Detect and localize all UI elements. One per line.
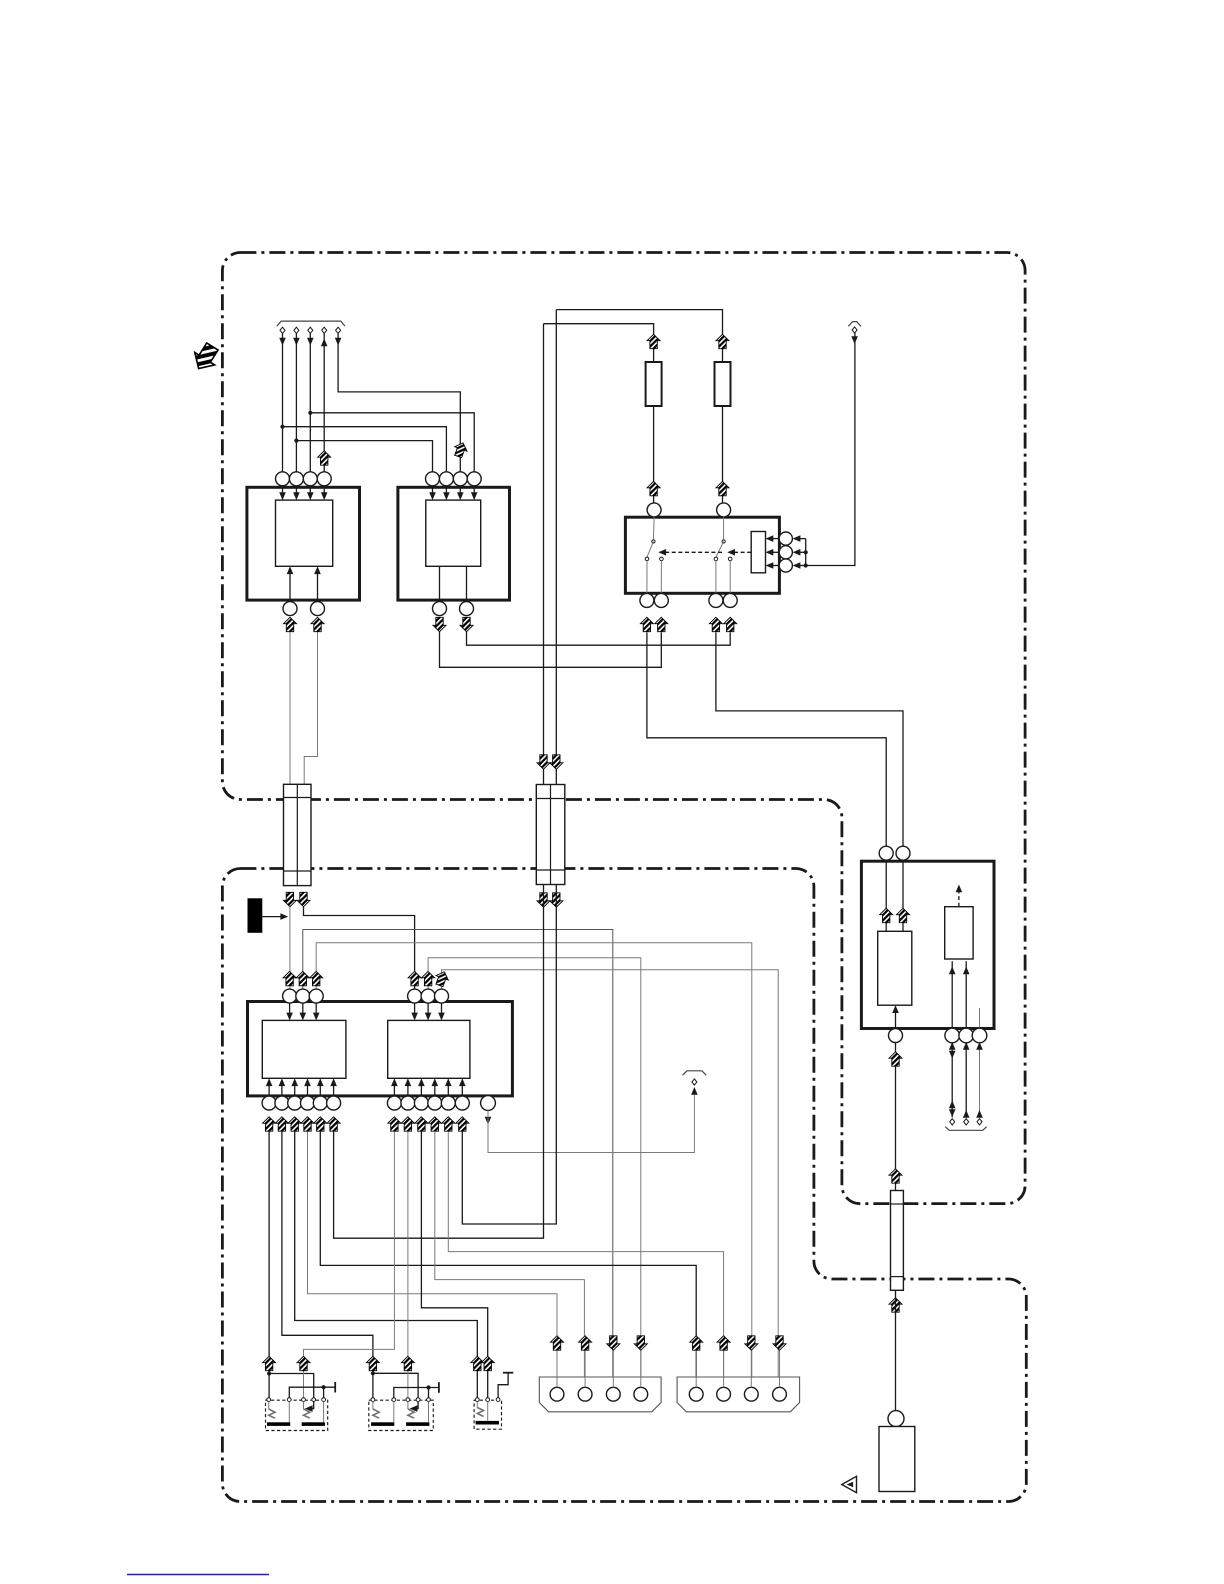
U1 bottom pin 2 (311, 602, 325, 616)
connector bracket CN2 (848, 322, 861, 327)
wire U4 p2 to key K2 c3 (407, 1132, 409, 1398)
signal arrow below U1 pin1 (284, 617, 297, 631)
K1 contact 3 (302, 1398, 306, 1402)
SW1 contact drop 1a (646, 561, 648, 594)
U4 bottom wire 4 (434, 1080, 436, 1096)
SW1 contact 1a (645, 557, 649, 561)
pin1 wire to T2 (951, 1043, 953, 1118)
junction coil bus 2 (804, 550, 808, 554)
relay box top pin 2 (896, 846, 910, 860)
K1 common stub bar (334, 1382, 336, 1393)
U1 top pin 4 (317, 472, 331, 486)
U3 top pin 1 (283, 989, 297, 1003)
K3 key cap bar (476, 1421, 499, 1425)
U4 top pin 1 (408, 989, 422, 1003)
U2 top pin 4 (467, 472, 481, 486)
U4 bottom wire 5 (447, 1080, 449, 1096)
U4 bottom wire 6 (461, 1080, 463, 1096)
jack pin (888, 1411, 904, 1427)
U1 output wire 2 (317, 568, 319, 602)
aux pin (right of U4) (481, 1096, 496, 1111)
wire FC1 col1 to U3 pin1 (289, 907, 291, 989)
SW1 coil drive arrow 1 (768, 538, 780, 540)
signal arrow above FC2 col1 (537, 755, 550, 769)
SW1 lever 1 (647, 542, 653, 558)
signal arrow below SW1 pin3 (709, 617, 722, 631)
SW1 coil feed 1 (795, 538, 806, 540)
U3 bottom pin 2 (275, 1096, 289, 1110)
SW1 coil pin 3 (779, 559, 792, 572)
SW1 contact 2b (728, 557, 732, 561)
junction on CN1-1 wire (280, 425, 284, 429)
U2 top pin 3 (453, 472, 467, 486)
CN3 pin 1 (550, 1387, 564, 1401)
sensor dashed output (958, 889, 960, 907)
CN3 pin 3 (606, 1387, 620, 1401)
signal arrow below SW1 pin2 (655, 617, 668, 631)
U2 input arrow 1 (432, 486, 434, 498)
K3 common stub bar (503, 1372, 513, 1374)
IC U3 inner block (262, 1020, 346, 1078)
CN3 pin 2 wire (584, 1351, 586, 1388)
U3 bottom pin 5 (313, 1096, 327, 1110)
CN4 pin 4 (773, 1387, 787, 1401)
U3 bottom wire 3 (294, 1080, 296, 1096)
K1 common wire (289, 1387, 335, 1398)
key group K1 (dashed) (266, 1400, 328, 1430)
signal arrow at K2 c3 (401, 1356, 414, 1370)
U4 top pin 2 (421, 989, 435, 1003)
sensor input wire 2 (965, 961, 967, 1028)
K1 contact 4 (312, 1398, 316, 1402)
U3 bottom pin 4 (301, 1096, 315, 1110)
flex cable FC3 (891, 1191, 904, 1291)
CN3 pin 4 wire (640, 1351, 642, 1388)
K1 common junction (322, 1385, 326, 1389)
K3 common wire (498, 1373, 508, 1398)
signal arrow below U2 pin1 (433, 617, 446, 631)
U2 output wire 1 (439, 566, 441, 601)
signal arrow below U4 pin2 (401, 1117, 414, 1131)
junction on CN1-2 wire (294, 439, 298, 443)
U4 top input arrow 2 (427, 1003, 429, 1018)
pin2 wire to T2 (965, 1043, 967, 1118)
bus A top run to R1 (544, 324, 654, 362)
pin3 arrows (976, 1042, 983, 1050)
CN4 pin 2 (717, 1387, 731, 1401)
signal arrow above R1 (647, 334, 660, 348)
K2 common stub bar (438, 1382, 440, 1393)
relay bottom pin 2 (959, 1028, 974, 1043)
K3 key lever (476, 1402, 478, 1408)
wire U3 p3 to key K3 (295, 1132, 478, 1398)
signal arrow below U1 pin2 (311, 617, 324, 631)
signal arrow below U3 pin6 (327, 1117, 340, 1131)
wire U4 p5 to CN4 pin2 (448, 1132, 723, 1388)
connector bracket CN6 (945, 1127, 986, 1131)
K2 contact 4 (416, 1398, 420, 1402)
U4 bottom pin 3 (414, 1096, 428, 1110)
wire top pin1 to coil (885, 861, 887, 931)
K1 contact 1 (267, 1398, 271, 1402)
U3 top pin 3 (309, 989, 323, 1003)
CN4 pin 3 wire (750, 1351, 752, 1388)
wire CN1-3 to U1 pin3 (309, 333, 311, 472)
CN3 pin 4 (634, 1387, 648, 1401)
SW1 bottom pin 3 (709, 593, 723, 607)
U4 bottom wire 2 (407, 1080, 409, 1096)
K2 contact drop (428, 1402, 430, 1423)
signal arrow above R2 (716, 334, 729, 348)
wire CN1-5 to U2 pin3 (338, 333, 460, 472)
signal arrow below U3 pin3 (288, 1117, 301, 1131)
SW1 coil feed 2 (795, 551, 806, 553)
K1 contact 5 (322, 1398, 326, 1402)
signal arrow below U3 pin2 (275, 1117, 288, 1131)
K2 key cap bar (371, 1422, 394, 1426)
board outline: main PCB (dash-dot) (222, 253, 1025, 1204)
signal arrow below SW1 pin4 (724, 617, 737, 631)
signal arrow below FC2 col1 (537, 893, 550, 907)
signal arrow above U3 pin3 (310, 971, 323, 985)
U4 bottom pin 1 (387, 1096, 401, 1110)
SW1 lever 2 (716, 542, 724, 558)
flex cable FC1 (left) (284, 784, 312, 885)
K2 key lever (372, 1402, 374, 1410)
resistor R2 (715, 362, 731, 406)
IC U2 inner block (426, 500, 481, 566)
signal arrow coil in 2 (897, 908, 910, 922)
U4 top pin 3 (435, 989, 449, 1003)
K3 contact drop (487, 1402, 489, 1421)
K2 drive branch (373, 1373, 418, 1408)
signal arrow below U4 pin3 (415, 1117, 428, 1131)
wire U3 p6 to bus A (334, 885, 544, 1239)
signal arrow below U4 pin5 (442, 1117, 455, 1131)
signal arrow below FC2 col2 (550, 893, 563, 907)
terminal T2-1 (950, 1119, 955, 1125)
board outline: operation PCB (dash-dot) (222, 869, 1026, 1502)
U1 top pin 2 (289, 472, 303, 486)
terminal CN1-5 (336, 327, 341, 333)
coil block (878, 931, 912, 1005)
signal arrow CN3 pin 4 (634, 1336, 647, 1350)
signal arrow CN4 pin 4 (773, 1336, 786, 1350)
relay bottom pin 1 (945, 1028, 960, 1043)
aux pin arrow (485, 1117, 492, 1125)
CN3 pin 1 wire (556, 1351, 558, 1388)
K3 contact 1 (475, 1398, 479, 1402)
SW1 contact drop 1b (660, 561, 662, 594)
U3 bottom wire 2 (281, 1080, 283, 1096)
wire branch to U2 pin4 (310, 413, 474, 472)
bus B top run to R2 (556, 310, 722, 362)
signal arrow below U2 pin2 (460, 617, 473, 631)
K2 common junction (426, 1385, 430, 1389)
U2 top pin 2 (439, 472, 453, 486)
signal arrow below U3 pin5 (314, 1117, 327, 1131)
wire U1 out1 to cable FC1 col1 (289, 632, 291, 784)
U3 bottom pin 3 (288, 1096, 302, 1110)
K3 contact 2 (486, 1398, 490, 1402)
wire U3 pin3 to CN4 pin3 (316, 943, 752, 1388)
CN4 pin 3 (744, 1387, 758, 1401)
CN3 pin 3 wire (612, 1351, 614, 1388)
U1 input arrow 2 (295, 486, 297, 498)
U3 bottom wire 5 (319, 1080, 321, 1096)
signal arrow below FC1 col2 (297, 892, 310, 906)
U4 bottom pin 5 (441, 1096, 455, 1110)
wire CN2-1 to switch coil bus (806, 333, 855, 566)
signal arrow above U3 pin2 (296, 971, 309, 985)
signal arrow at K2 c1 (366, 1356, 379, 1370)
U3 bottom wire 1 (268, 1080, 270, 1096)
IC U2 outer box (398, 487, 510, 600)
U4 bottom pin 2 (401, 1096, 415, 1110)
U3 bottom pin 6 (327, 1096, 341, 1110)
wire U4 p3 to key K3 c2 (421, 1132, 487, 1398)
wire SW1 pin3 to relay box pin2 (716, 632, 903, 846)
signal arrow below R2 (716, 481, 729, 495)
SW1 top pin 1 (647, 503, 661, 517)
U2 top pin 1 (426, 472, 440, 486)
SW1 coil drive arrow 3 (768, 565, 780, 567)
signal arrow at K3 c2 (481, 1356, 494, 1370)
signal arrow at K1 c3 (297, 1356, 310, 1370)
SW1 contact 1b (660, 557, 664, 561)
K1 contact 2 (287, 1398, 291, 1402)
footer link line (127, 1574, 269, 1576)
connector CN4 shell (677, 1377, 800, 1412)
pin3 wire to T2 (979, 1043, 981, 1118)
aux arrowhead up (691, 1087, 698, 1095)
signal arrow below SW1 pin1 (640, 617, 653, 631)
CN4 pin 1 (689, 1387, 703, 1401)
SW1 pivot 1 (652, 540, 655, 543)
K1 common drop (323, 1387, 325, 1398)
U2 input arrow 3 (459, 486, 461, 498)
signal arrow CN3 pin 2 (579, 1336, 592, 1350)
sensor input wire 1 (951, 961, 953, 1028)
junction K2 drive (371, 1371, 375, 1375)
K1 key lever (303, 1402, 305, 1410)
U1 top pin 1 (276, 472, 290, 486)
signal arrow above U4 pin3 (433, 970, 450, 988)
SW1 coil drive arrow 2 (768, 551, 780, 553)
U2 output wire 2 (466, 566, 468, 601)
wire U4 pin2 to CN3 pin4 (428, 958, 641, 1388)
wire R1 to SW box pin1 (653, 406, 655, 503)
U1 input arrow 3 (309, 486, 311, 498)
terminal T2-2 (964, 1119, 969, 1125)
SW1 pole stub 1 (652, 517, 655, 540)
IC U1 inner block (276, 500, 333, 566)
resistor R1 (646, 362, 662, 406)
U3 bottom pin 1 (262, 1096, 276, 1110)
U1 top pin 3 (303, 472, 317, 486)
K1 drive branch (269, 1374, 314, 1409)
wire U4 pin3 to CN4 pin4 (442, 970, 779, 1388)
SW1 contact drop 2a (715, 561, 717, 594)
U4 bottom wire 3 (420, 1080, 422, 1096)
SW1 bottom pin 1 (640, 593, 654, 607)
relay bottom pin 0 (889, 1029, 903, 1043)
pin1 arrows (949, 1042, 956, 1050)
signal arrow below U3 pin4 (301, 1117, 314, 1131)
signal arrow below FC1 col1 (283, 892, 296, 906)
signal arrow CN3 pin 1 (551, 1336, 564, 1350)
pin2 arrows (963, 1042, 970, 1050)
wire U4 p4 to CN3 pin2 (435, 1132, 585, 1388)
wire R2 to SW box pin2 (722, 406, 724, 503)
U2 bottom pin 1 (433, 602, 447, 616)
wire U4 p6 to bus B (462, 885, 556, 1225)
board pointer arrow (189, 340, 223, 374)
wire U2 pin1 to switch S1 contact b (440, 632, 662, 667)
sensor block (945, 907, 973, 959)
signal arrow above FC3 (889, 1169, 902, 1183)
U3 top input arrow 1 (289, 1003, 291, 1018)
K2 contact drop (393, 1402, 395, 1423)
wire U1 out2 to cable FC1 col2 (304, 632, 317, 784)
U3 top input arrow 3 (315, 1003, 317, 1018)
terminal CN2-1 (852, 327, 857, 333)
SW1 coil feed 3 (795, 565, 806, 567)
U4 bottom pin 4 (428, 1096, 442, 1110)
K2 key cap bar (406, 1422, 429, 1426)
signal arrow above FC2 col2 (550, 755, 563, 769)
signal arrow below U4 pin1 (388, 1117, 401, 1131)
wire FC3 to jack (895, 1290, 897, 1410)
wire U3 pin2 to CN3 pin3 (303, 930, 613, 1388)
relay box outer (861, 861, 994, 1028)
wire CN1-1 to U1 pin1 (282, 333, 284, 472)
signal arrow on relay pin0 wire (889, 1052, 902, 1066)
signal arrow on U1 pin4 wire (318, 451, 331, 465)
K1 contact drop (323, 1402, 325, 1423)
flex cable FC2 (middle) (536, 785, 565, 885)
SW1 actuator link (dashed) (731, 551, 751, 553)
U3 bottom wire 4 (307, 1080, 309, 1096)
relay box top pin 1 (879, 846, 893, 860)
CN4 pin 1 wire (695, 1351, 697, 1388)
U1 bottom pin 1 (283, 602, 297, 616)
wire U4 p1 to key K1 c3 (304, 1132, 395, 1398)
SW1 coil pin 1 (779, 532, 792, 545)
U2 input arrow 4 (473, 486, 475, 498)
K2 common drop (428, 1388, 430, 1398)
SW1 contact 2a (714, 557, 718, 561)
signal arrow below U4 pin4 (428, 1117, 441, 1131)
caution triangle (842, 1476, 857, 1492)
IC U4 inner block (388, 1020, 470, 1078)
SW1 bottom pin 2 (654, 593, 668, 607)
signal arrow below FC3 (889, 1298, 902, 1312)
U2 input arrow 2 (445, 486, 447, 498)
K2 common wire (394, 1388, 439, 1398)
U3 top pin 2 (296, 989, 310, 1003)
signal arrow at K1 c1 (263, 1356, 276, 1370)
connector CN3 shell (539, 1377, 661, 1412)
switch box SW1 (625, 517, 779, 593)
U4 top input arrow 3 (441, 1003, 443, 1018)
IC U1 outer box (247, 487, 360, 600)
wire CN1-4 to U1 pin4 (323, 333, 325, 472)
wire CN1-2 to U1 pin2 (295, 333, 297, 472)
U3 top input arrow 2 (302, 1003, 304, 1018)
sensor input wire 3 (979, 1008, 981, 1029)
CN3 pin 2 (578, 1387, 592, 1401)
SW1 top pin 2 (717, 503, 731, 517)
K1 key cap bar (267, 1422, 290, 1426)
wire branch to U2 pin1 (296, 441, 432, 472)
signal arrow CN4 pin 2 (717, 1336, 730, 1350)
CN4 pin 2 wire (723, 1351, 725, 1388)
jack block (879, 1427, 915, 1492)
signal arrow CN3 pin 3 (607, 1336, 620, 1350)
terminal T1 (692, 1079, 697, 1085)
signal arrow coil in 1 (880, 908, 893, 922)
IC U3/U4 outer box (248, 1002, 513, 1096)
wire U3 p1 to key K1 (268, 1132, 270, 1398)
wire U3 p2 to key K2 (282, 1132, 373, 1398)
wire top pin2 to coil (902, 861, 904, 931)
U4 bottom wire 1 (393, 1080, 395, 1096)
junction on CN1-3 wire (308, 411, 312, 415)
U4 top input arrow 1 (414, 1003, 416, 1018)
K2 contact 2 (392, 1398, 396, 1402)
K1 key lever (268, 1402, 270, 1410)
K2 key lever (407, 1402, 409, 1410)
wire U3 p4 to CN3 pin1 (308, 1132, 558, 1388)
wire FC1 col2 to U4 pin1 (304, 907, 415, 989)
signal arrow below U3 pin1 (263, 1117, 276, 1131)
signal arrow below R1 (647, 481, 660, 495)
SW1 contact drop 2b (729, 561, 731, 594)
CN4 pin 4 wire (779, 1351, 781, 1388)
terminal CN1-4 (322, 327, 327, 333)
K2 contact 5 (427, 1398, 431, 1402)
K2 contact 3 (406, 1398, 410, 1402)
K3 contact 3 (496, 1398, 500, 1402)
U1 input arrow 4 (323, 486, 325, 498)
K2 contact 1 (371, 1398, 375, 1402)
U3 bottom wire 6 (333, 1080, 335, 1096)
wire U2 pin2 to switch S2 contact b (467, 632, 731, 645)
terminal T2-3 (977, 1119, 982, 1125)
wire SW1 pin1 to relay box pin1 (647, 632, 886, 846)
wire branch to U2 pin2 (283, 427, 447, 472)
signal arrow above U4 pin2 (422, 971, 435, 985)
bus wire B (right) (555, 310, 557, 785)
signal arrow at K3 in1 (471, 1356, 484, 1370)
K1 contact drop (288, 1402, 290, 1423)
signal arrow above U3 pin1 (283, 971, 296, 985)
junction K1 drive (267, 1371, 271, 1375)
terminal CN1-3 (308, 327, 313, 333)
SW1 coil bus (805, 539, 807, 566)
junction coil bus 3 (804, 563, 808, 567)
SW1 actuator block (751, 532, 765, 573)
U2 bottom pin 2 (460, 602, 474, 616)
terminal CN1-1 (280, 327, 285, 333)
coil output wire (895, 1007, 897, 1028)
wire U3 p5 to CN4 pin1 (320, 1132, 696, 1388)
SW1 pole stub 2 (723, 517, 725, 540)
SW1 coil pin 2 (779, 546, 792, 559)
marker arrow (262, 916, 283, 918)
bus wire A (left) (543, 324, 545, 785)
